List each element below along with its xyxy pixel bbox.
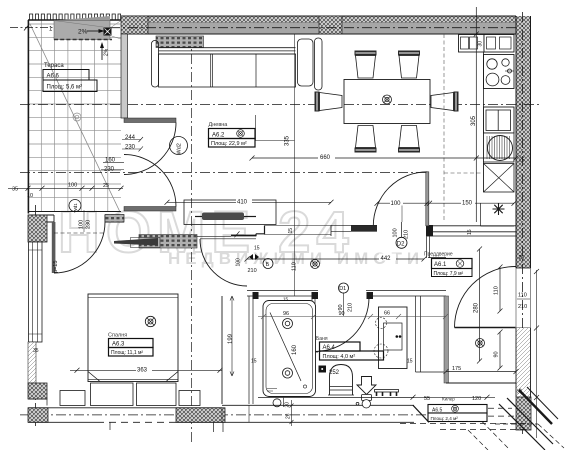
svg-text:2%: 2% [104,48,110,56]
svg-text:55: 55 [424,396,430,402]
svg-text:210: 210 [348,303,354,312]
dim 110 entr [499,267,501,311]
svg-text:175: 175 [452,366,461,372]
svg-text:35: 35 [12,187,18,193]
slope up-arrow 2% [101,45,103,60]
svg-text:305: 305 [471,115,477,126]
svg-text:90: 90 [339,311,345,317]
wall B south of living/kitchen [331,224,377,226]
D1 tag line [343,293,345,317]
cabinet X-box [484,164,515,193]
bath east wall [416,296,449,372]
svg-text:Wd1: Wd1 [73,203,78,213]
outer dim line right [536,270,538,438]
svg-text:Площ: 7,9 м²: Площ: 7,9 м² [434,271,464,277]
svg-text:Преддверие: Преддверие [424,252,453,258]
bed [88,294,178,382]
dim chain bath y316.5 [258,316,446,318]
terrace west wall [27,20,29,214]
top wall column block middle [319,16,342,34]
svg-text:442: 442 [381,256,392,262]
bottom small vertical + dim [291,400,293,426]
svg-text:D1: D1 [339,286,346,292]
slope arrow 2% [87,30,102,32]
svg-text:10: 10 [27,193,33,199]
svg-text:199: 199 [228,333,234,344]
top wall axis line [110,27,531,29]
kitchen sink [484,107,515,133]
svg-text:35: 35 [33,348,39,354]
living horizontal axis [20,104,540,106]
svg-text:Площ: 4,0 м²: Площ: 4,0 м² [323,354,356,360]
drain square [104,28,112,36]
terrace slope shading triangle [54,16,110,21]
boiler cylinder [362,395,372,401]
kitchen upper cabinet A [459,35,485,53]
dim 660 [252,157,516,159]
svg-text:230: 230 [104,166,115,172]
Wd2 bottom arc [124,155,176,207]
svg-text:110: 110 [518,293,527,299]
closet top line [446,382,516,384]
svg-text:160: 160 [105,158,116,164]
vert line x84 (100/230) [83,210,85,232]
chair top-right [398,51,420,56]
axis x191 [191,36,193,445]
D2 leaf [426,172,429,226]
small dim lines near Wd2 [101,140,141,170]
dim texts horizontal [318,153,335,160]
terrace slope pad 2% [54,21,110,40]
top wall insulation strip [121,16,516,23]
svg-text:15: 15 [288,228,294,234]
svg-text:150: 150 [462,200,473,206]
svg-text:100: 100 [391,201,402,207]
chair bottom-right [398,148,420,153]
svg-text:110: 110 [494,286,500,295]
terrace slope diagonal [30,24,120,212]
bath west wall [249,296,253,404]
svg-text:100: 100 [68,183,77,189]
dim chain left terrace y188 [8,187,123,189]
bottom wall [28,405,414,408]
dim 410 [167,201,331,203]
svg-text:А6.4: А6.4 [323,345,336,351]
door tags [69,137,407,294]
right wall diagonal-hatch lower [516,328,531,397]
corner thick diagonals bottom right [499,398,553,450]
kitchen upper cabinet B [484,35,514,53]
D2 arc [373,172,427,226]
svg-text:Килер: Килер [442,397,455,402]
bath floor drain [319,366,327,373]
chair right [454,92,459,112]
svg-text:210: 210 [518,304,527,310]
bench grate [375,390,399,393]
small circle pair below tub + tick [283,398,285,408]
dim 175 closet [446,371,516,373]
pillow right [137,383,177,406]
D1 leaf [309,296,318,352]
svg-text:244: 244 [125,135,136,141]
kitchen base unit with asterisk [481,203,514,226]
svg-text:15: 15 [467,229,473,235]
wall A thin lines [197,236,256,239]
svg-text:15: 15 [254,246,260,252]
svg-text:20: 20 [285,402,291,408]
terrace bottom edge [28,211,121,213]
svg-text:Площ: 2,4 м²: Площ: 2,4 м² [431,416,459,421]
label leader lines living [255,115,257,141]
bedroom window overhead dashed [54,232,105,234]
dim 100 (D2) [377,202,427,204]
svg-text:А6.6: А6.6 [47,74,60,80]
dim 90 entr [499,332,501,368]
TV [202,213,244,221]
bedroom north wall [28,215,124,222]
svg-text:p=15: p=15 [53,261,59,273]
shelf hatch block above sofa [156,36,204,48]
right wall corner block [516,397,531,430]
svg-text:160: 160 [292,344,298,355]
axis stub top-left [10,27,53,29]
Wd1 arc [54,222,105,273]
dining table [344,80,430,124]
svg-text:230: 230 [86,220,92,229]
niche dim 199 [231,296,233,376]
bathtub [263,301,316,397]
svg-text:66: 66 [384,311,390,317]
dim 55 / 120 [413,396,495,398]
svg-text:25: 25 [519,158,525,164]
svg-text:2%: 2% [78,29,88,36]
svg-text:Дневна: Дневна [209,122,229,128]
stove [484,55,515,89]
svg-text:Площ: 5,6 м²: Площ: 5,6 м² [47,85,83,91]
tiny solid arrows near Б door [249,254,281,407]
terrace railing [28,19,121,21]
entrance door arc [455,267,516,328]
svg-text:15: 15 [407,359,413,365]
left wall upper hatch block [28,215,47,242]
sofa [152,38,323,90]
left window [29,242,43,342]
svg-text:Тераса: Тераса [44,63,64,69]
Wd2 top leaf [124,118,176,123]
svg-text:Площ: 22,9 м²: Площ: 22,9 м² [211,141,247,147]
svg-text:210: 210 [248,268,257,274]
dim 305 kitchen [475,7,477,222]
chair top-left [355,51,377,56]
sink cabinet [379,307,408,369]
bedroom east wall [221,296,223,404]
dim 150 kitchen [427,202,514,204]
wardrobe hatch strip [139,235,197,249]
bottom wall hatch blocks [28,408,48,423]
Wd2 bottom leaf [124,207,176,212]
table light [383,95,392,104]
chair bottom-left [355,148,377,153]
svg-text:Б: Б [266,262,270,268]
nightstand right [179,391,200,406]
terrace floor grid [28,20,121,212]
bottom wall axis [20,414,462,416]
svg-text:25: 25 [519,255,525,261]
svg-text:Баня: Баня [316,336,328,342]
svg-text:100: 100 [236,258,242,267]
svg-text:230: 230 [125,145,136,151]
svg-text:26: 26 [286,413,292,419]
hall horizontal axis [20,172,428,174]
svg-text:25: 25 [103,183,109,189]
right wall hatched upper [516,16,531,268]
left wall axis [35,205,37,426]
wall stub x428 [427,236,447,258]
svg-text:D2: D2 [397,241,405,247]
left wall lower hatch block [28,383,47,399]
hall east gray wall [444,296,449,383]
dim 280 [479,249,481,361]
chair left [315,92,320,112]
svg-text:Площ: 11,1 м²: Площ: 11,1 м² [111,350,143,356]
svg-text:15: 15 [283,297,289,302]
hall lights [311,260,320,269]
rotated dim texts [53,41,524,419]
svg-text:96: 96 [283,311,289,317]
bedroom door jamb hatch [105,215,124,223]
svg-text:А6.1: А6.1 [434,262,447,268]
top wall column block left [121,16,148,34]
left wall narrow hatch [28,342,36,383]
kitchen dashed counter lines [443,34,445,222]
svg-text:Спалня: Спалня [108,333,127,339]
svg-text:100: 100 [393,228,399,237]
svg-text:30: 30 [478,41,484,47]
svg-text:363: 363 [137,368,148,374]
kitchen counter edge [483,52,485,192]
svg-text:25: 25 [518,388,524,394]
right wall axis [522,12,524,434]
pillow left [91,383,134,406]
terrace light [73,113,81,121]
svg-text:А6.3: А6.3 [112,342,125,348]
svg-text:90: 90 [494,351,500,357]
svg-text:110: 110 [292,262,298,271]
right wall door opening faces [515,268,517,328]
svg-text:А6.2: А6.2 [212,133,225,139]
svg-text:90: 90 [338,304,344,310]
nightstand left [60,391,85,406]
svg-text:660: 660 [320,155,331,161]
bath south floor lines [258,397,414,399]
toilet [330,365,353,396]
svg-text:280: 280 [474,302,480,313]
dim 363 [70,369,222,371]
top wall gray body [121,23,516,35]
Wd1 leaf [52,222,56,273]
dim 442 [247,258,424,260]
pointed object [131,238,161,248]
svg-text:252: 252 [329,370,340,376]
bath north wall [247,291,446,297]
terrace-living wall pier [121,34,128,118]
door B arc [200,239,247,286]
svg-text:100: 100 [79,220,85,229]
bedroom light [145,316,155,326]
D1 arc [315,298,369,352]
shaft down arrow [357,377,376,395]
entrance door leaf [455,327,516,329]
Wd2 top arc [124,123,176,175]
TV stand [184,200,276,225]
svg-text:335: 335 [285,135,291,146]
svg-text:120: 120 [472,396,481,402]
dishwasher hatch + circle [484,133,515,162]
svg-text:210: 210 [404,230,410,239]
svg-text:15: 15 [251,359,257,365]
svg-text:410: 410 [237,200,248,206]
svg-text:Wd2: Wd2 [177,143,183,154]
